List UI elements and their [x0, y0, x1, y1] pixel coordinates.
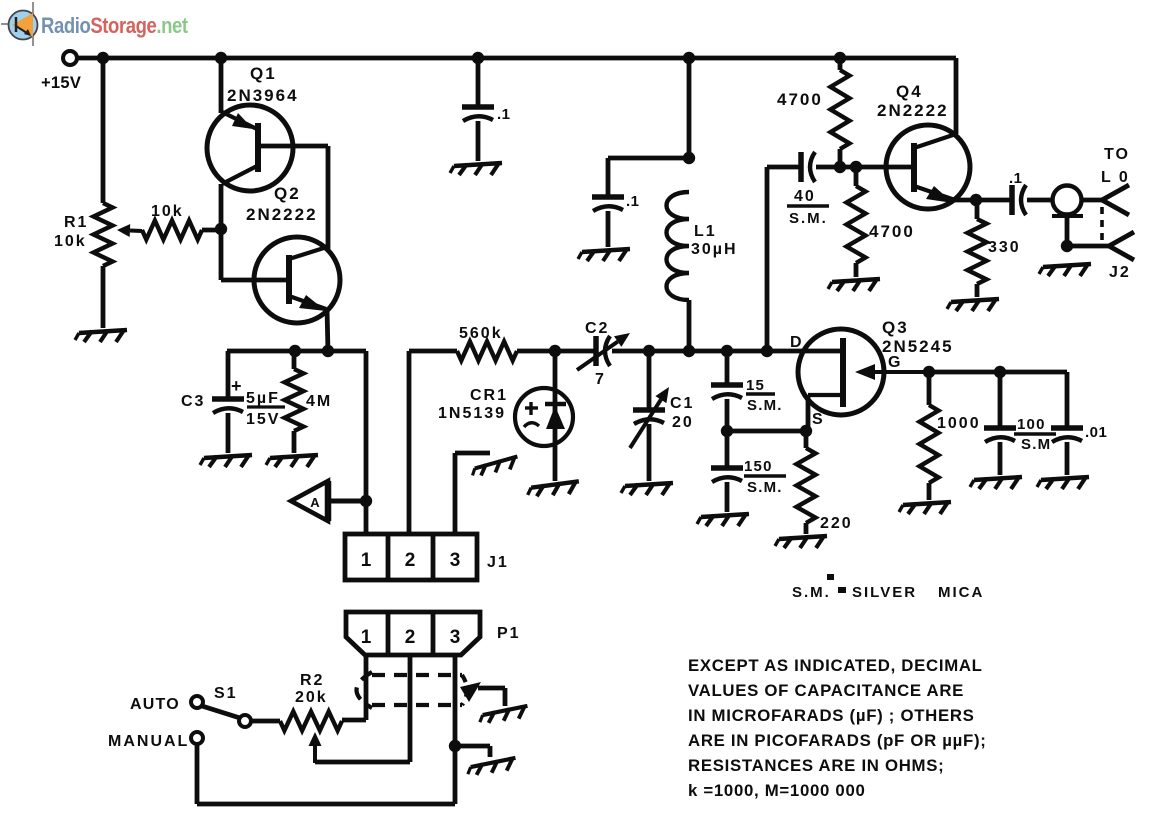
ground 150SM: [697, 514, 749, 526]
svg-text:S.M.: S.M.: [792, 584, 831, 601]
node Q4 base b: [850, 161, 862, 173]
capacitor .1 top: [462, 58, 511, 161]
ground 100SM: [970, 477, 1022, 489]
svg-text:+: +: [231, 376, 244, 396]
inductor L1 30uH: [667, 192, 738, 300]
resistor 220: [797, 431, 853, 534]
svg-text:Q1: Q1: [250, 64, 277, 83]
svg-text:TO: TO: [1104, 146, 1130, 163]
ground 4M: [266, 455, 318, 467]
wire C1 up: [647, 351, 652, 408]
node Q2 emitter: [322, 345, 334, 357]
resistor 330: [968, 200, 1021, 297]
capacitor C2 7pF: [555, 320, 630, 388]
jack J2 tip: [1052, 186, 1083, 217]
node Q1 collector: [215, 223, 227, 235]
svg-text:EXCEPT AS INDICATED, DECIMAL: EXCEPT AS INDICATED, DECIMAL: [688, 656, 983, 675]
wire Q4 emitter: [955, 198, 1011, 203]
wire Q3 source: [806, 395, 811, 431]
node C1 top: [643, 345, 655, 357]
ground pin3: [467, 758, 518, 776]
ground linkage: [479, 706, 530, 724]
svg-text:CR1: CR1: [470, 387, 508, 404]
wire 15SM down: [725, 399, 730, 432]
svg-text:560k: 560k: [459, 325, 503, 342]
svg-text:5µF: 5µF: [246, 390, 280, 407]
wire C3 down: [226, 413, 231, 453]
svg-text:R2: R2: [300, 672, 324, 689]
label TO LO: [1101, 146, 1131, 281]
svg-text:2: 2: [405, 627, 416, 648]
logo text: [41, 15, 188, 39]
wire to J1 pin1: [364, 351, 369, 534]
svg-text:RESISTANCES ARE IN OHMS;: RESISTANCES ARE IN OHMS;: [688, 756, 944, 775]
ground C1: [621, 483, 673, 495]
wire divider to source: [727, 429, 806, 434]
wire P1 pin3: [453, 655, 458, 746]
switch S1: [191, 685, 280, 727]
svg-text:IN MICROFARADS (µF) ; OTHERS: IN MICROFARADS (µF) ; OTHERS: [688, 706, 975, 725]
wire C1 down: [647, 424, 652, 481]
svg-text:MICA: MICA: [938, 584, 984, 601]
wire main bus: [650, 349, 843, 354]
R2 wiper: [309, 732, 322, 763]
wire pin3 ground: [455, 746, 490, 757]
resistor 10k: [142, 203, 202, 240]
svg-text:.1: .1: [497, 106, 511, 123]
svg-text:3: 3: [450, 627, 461, 648]
wire C3 top rail: [227, 349, 366, 354]
svg-text:10k: 10k: [54, 233, 87, 250]
svg-text:15: 15: [746, 377, 765, 394]
J2 dashed link: [1100, 207, 1104, 241]
svg-text:1: 1: [361, 627, 372, 648]
svg-text:VALUES OF CAPACITANCE ARE: VALUES OF CAPACITANCE ARE: [688, 681, 964, 700]
node Q4 emitter: [970, 194, 982, 206]
capacitor 100 S.M.: [984, 372, 1056, 475]
node divider: [721, 425, 733, 437]
wire L1 bottom: [687, 300, 692, 353]
svg-text:Q4: Q4: [896, 82, 923, 101]
svg-text:+15V: +15V: [41, 74, 81, 92]
svg-text:S: S: [812, 411, 825, 428]
svg-text:2N3964: 2N3964: [227, 86, 299, 105]
svg-text:L1: L1: [694, 223, 717, 240]
wire J1 pin3 to ground: [455, 453, 490, 534]
node rail-4700: [834, 52, 846, 64]
svg-text:P1: P1: [497, 625, 521, 642]
wire P1 pin2: [315, 655, 410, 762]
svg-text:C2: C2: [585, 320, 609, 337]
resistor 4700 upper: [777, 58, 850, 167]
wire Q1 collector down: [221, 184, 289, 280]
wire R1 bottom: [101, 266, 106, 328]
wire 40SM riser: [767, 167, 800, 351]
svg-text:1: 1: [361, 550, 372, 571]
node 4M top: [289, 345, 301, 357]
ground CR1: [527, 481, 580, 497]
capacitor .1 (L1): [592, 193, 640, 247]
resistor R2 20k: [280, 672, 342, 731]
svg-text:7: 7: [595, 371, 606, 388]
capacitor C3 5uF 15V: [181, 376, 285, 428]
svg-text:D: D: [790, 334, 804, 351]
node J2 sleeve: [1061, 240, 1073, 252]
wire L1 drop: [687, 58, 692, 158]
capacitor 15 S.M.: [711, 377, 783, 414]
capacitor C1 20pF: [630, 387, 694, 448]
wire 10k-node: [202, 228, 224, 233]
arrow A out: [291, 481, 366, 521]
wire Q1 emitter: [219, 58, 224, 113]
svg-text:C1: C1: [670, 395, 694, 412]
wire to J2: [1027, 198, 1053, 203]
svg-text:150: 150: [744, 458, 773, 475]
node rail-Q1: [215, 52, 227, 64]
svg-text:S.M.: S.M.: [747, 479, 783, 496]
svg-text:J1: J1: [487, 554, 509, 571]
svg-text:1000: 1000: [937, 415, 981, 432]
resistor 560k: [409, 325, 557, 361]
resistor R1 10k pot: [54, 203, 113, 266]
wire 560k left: [407, 351, 412, 534]
svg-text:C3: C3: [181, 393, 205, 410]
svg-text:Q2: Q2: [274, 184, 301, 203]
svg-text:2: 2: [405, 550, 416, 571]
ground R1: [75, 330, 127, 342]
capacitor 150 S.M.: [711, 431, 786, 512]
svg-text:L 0: L 0: [1101, 169, 1130, 186]
svg-text:100: 100: [1017, 416, 1046, 433]
ground .1 top: [450, 163, 502, 175]
node L1 top: [683, 152, 695, 164]
wire C2 right: [612, 349, 650, 354]
wire Q4 base: [840, 165, 914, 170]
svg-text:R1: R1: [64, 214, 88, 231]
label silver mica: [792, 574, 984, 601]
svg-text:330: 330: [988, 239, 1021, 256]
resistor 1000: [920, 372, 981, 500]
node L1 bus: [683, 345, 695, 357]
transistor Q1 2N3964: [207, 64, 299, 191]
wire C3 up: [226, 351, 231, 397]
ground 1000: [899, 502, 951, 514]
svg-text:20: 20: [672, 414, 694, 431]
ground J1 pin3: [471, 457, 520, 478]
diode CR1 1N5139: [438, 387, 573, 446]
ground C3: [200, 455, 252, 467]
+15V terminal: [41, 51, 81, 92]
svg-text:SILVER: SILVER: [852, 584, 917, 601]
node rail-L1: [683, 52, 695, 64]
transistor Q2 2N2222: [246, 184, 340, 323]
node CR1 top: [549, 345, 561, 357]
RadioStorage.net logo mark: [1, 2, 38, 46]
svg-text:k =1000, M=1000 000: k =1000, M=1000 000: [688, 781, 866, 800]
svg-text:3: 3: [450, 550, 461, 571]
node P1 pin3: [449, 740, 461, 752]
transistor Q4 2N2222: [877, 82, 970, 209]
svg-text:220: 220: [820, 515, 853, 532]
svg-text:RadioStorage.net: RadioStorage.net: [41, 15, 188, 39]
mechanical linkage dashed: [357, 672, 468, 708]
svg-text:Q3: Q3: [882, 318, 909, 337]
node 100SM: [994, 366, 1006, 378]
svg-text:2N2222: 2N2222: [246, 205, 318, 224]
ground 330: [947, 299, 999, 311]
label AUTO: [130, 696, 180, 713]
capacitor .01: [1051, 372, 1107, 475]
svg-text:2N2222: 2N2222: [877, 101, 949, 120]
connector J1: [345, 534, 509, 580]
svg-text:4700: 4700: [869, 222, 915, 241]
node 40SM riser: [761, 345, 773, 357]
svg-text:4700: 4700: [777, 90, 823, 109]
J2 lower contact: [1109, 232, 1134, 260]
wire J2 lower: [1067, 244, 1109, 249]
linkage arrow: [460, 682, 505, 706]
ground .1 (L1): [578, 249, 630, 261]
wire bottom return: [197, 744, 455, 804]
ground 220: [775, 536, 827, 548]
svg-text:15V: 15V: [246, 411, 280, 428]
connector P1: [346, 612, 521, 655]
svg-text:4M: 4M: [306, 393, 332, 410]
terminal MANUAL: [108, 732, 203, 750]
node rail-C.1: [472, 52, 484, 64]
node Q4 base a: [834, 161, 846, 173]
wire to .1 cap: [608, 158, 689, 196]
wire P1 pin1: [342, 655, 366, 720]
wire Q1 base to Q2 collector: [258, 146, 328, 249]
node Q3 source: [800, 425, 812, 437]
ground 4700 lower: [828, 279, 880, 291]
capacitor .1 output: [1009, 170, 1026, 215]
svg-text:.1: .1: [1009, 170, 1023, 187]
svg-text:30µH: 30µH: [691, 241, 738, 258]
node rail-R1: [97, 52, 109, 64]
svg-text:S.M.: S.M.: [789, 210, 828, 227]
svg-text:S.M: S.M: [1021, 436, 1051, 453]
svg-text:.01: .01: [1085, 424, 1107, 441]
wire R1 top: [101, 58, 106, 203]
resistor 4700 lower: [847, 167, 915, 277]
svg-text:S1: S1: [214, 685, 238, 702]
svg-text:S.M.: S.M.: [747, 397, 783, 414]
node 1000: [923, 366, 935, 378]
ground .01: [1037, 477, 1089, 489]
ground J2: [1039, 264, 1091, 276]
svg-text:AUTO: AUTO: [130, 696, 180, 713]
wire +15V rail: [77, 58, 956, 134]
J2 upper contact: [1102, 185, 1129, 215]
node A-wire: [360, 495, 372, 507]
svg-text:.1: .1: [626, 193, 640, 210]
wire Q2 emitter down: [327, 308, 328, 353]
svg-text:10k: 10k: [151, 203, 184, 220]
wire gate line: [925, 370, 1067, 375]
capacitor 40 S.M.: [787, 152, 840, 227]
svg-text:G: G: [888, 354, 902, 371]
wire J2 sleeve: [1065, 216, 1070, 248]
svg-text:J2: J2: [1109, 264, 1131, 281]
svg-text:20k: 20k: [295, 689, 328, 706]
svg-text:ARE IN PICOFARADS (pF OR µµF);: ARE IN PICOFARADS (pF OR µµF);: [688, 731, 987, 750]
notes text block: [688, 656, 987, 800]
svg-text:MANUAL: MANUAL: [108, 733, 189, 750]
svg-text:A: A: [310, 495, 320, 510]
wire CR1: [553, 351, 558, 481]
R1 wiper arrow: [117, 224, 142, 237]
node 15SM: [721, 345, 733, 357]
wire J2 right: [1082, 198, 1102, 203]
wire 15SM up: [725, 351, 730, 383]
svg-text:1N5139: 1N5139: [438, 405, 506, 422]
Q3 gate arrow: [855, 364, 929, 380]
transistor Q3 2N5245: [790, 318, 954, 428]
svg-text:40: 40: [794, 188, 816, 205]
resistor 4M: [285, 351, 333, 453]
